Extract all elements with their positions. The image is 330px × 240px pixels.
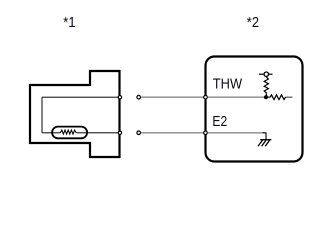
- terminal circle (ECM pin E2): [204, 131, 208, 135]
- svg-text:*2: *2: [247, 14, 259, 31]
- terminal circle (sensor pin 1): [118, 96, 121, 99]
- resistor (horizontal zigzag on THW line): [268, 95, 286, 100]
- wire (inner loop of sensor: top lead): [42, 96, 120, 98]
- terminal circle (sensor pin 2): [118, 131, 121, 134]
- wire (inner loop of sensor: left vertical): [41, 97, 43, 133]
- terminal circle (ECM pin THW): [204, 95, 208, 99]
- wire THW (harness to ECM): [141, 96, 206, 98]
- svg-text:THW: THW: [213, 76, 243, 92]
- wire (inner loop of sensor: bottom lead): [42, 132, 60, 134]
- svg-text:E2: E2: [212, 114, 227, 130]
- ECM box (*2): [206, 57, 303, 162]
- power terminal circle (5V supply): [259, 73, 273, 75]
- junction dot (THW node): [264, 95, 268, 99]
- wire (stub after series resistor): [286, 96, 293, 98]
- terminal circle (harness end, E2 wire): [137, 131, 141, 135]
- wire (E2 down stub to ground): [263, 132, 267, 140]
- sensor housing outline (coolant temp sensor connector *1): [30, 71, 120, 157]
- wire (E2 inside ECM): [208, 132, 267, 134]
- ground (chassis ground symbol): [258, 140, 271, 147]
- thermistor resistor zigzag: [60, 130, 76, 134]
- terminal circle (harness end, THW wire): [137, 95, 141, 99]
- thermistor body (stadium outline): [52, 127, 87, 139]
- resistor (pull-up, vertical zigzag): [264, 77, 268, 97]
- svg-text:*1: *1: [63, 14, 75, 31]
- wire E2 (harness to ECM): [141, 132, 206, 134]
- wire (THW inside ECM to junction): [208, 96, 267, 98]
